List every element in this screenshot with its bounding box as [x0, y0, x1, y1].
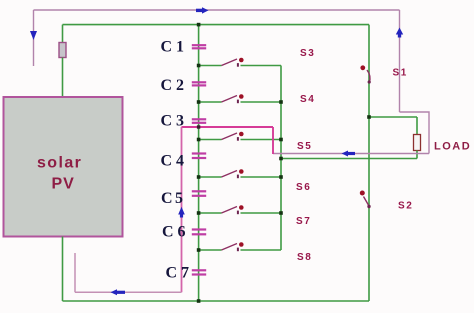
switch S6 blade — [222, 171, 238, 178]
svg-text:S3: S3 — [300, 48, 315, 59]
svg-text:LOAD: LOAD — [434, 141, 471, 153]
switch S8 blade — [222, 244, 238, 251]
node: chain S6 junction — [197, 175, 201, 179]
wire: S4 row left lead — [199, 101, 222, 103]
wire: magenta bottom horizontal — [75, 291, 182, 293]
switch S6 pole tick — [237, 175, 239, 179]
wire: right green vertical (S1/S2 branch) — [368, 25, 370, 301]
wire: capacitor chain vertical — [198, 25, 200, 301]
wire: green vertical from solar PV bottom to bottom bus — [62, 237, 64, 302]
node: chain magenta tap junction — [197, 125, 200, 128]
node: chain S4 junction — [197, 100, 201, 104]
switch S1 blade — [367, 70, 370, 83]
node: chain S5 junction — [197, 138, 201, 142]
wire: S5 row right lead — [241, 139, 282, 141]
arrow: current right on top purple wire — [196, 9, 202, 12]
wire: magenta vertical beside capacitor chain — [181, 127, 183, 292]
node: bus S6 junction — [279, 175, 283, 179]
wire: LOAD top green from right vertical to load — [369, 116, 417, 118]
node: chain S3 junction — [197, 64, 201, 68]
wire: S5 row left lead — [199, 139, 222, 141]
svg-text:C 1: C 1 — [161, 39, 185, 56]
arrow: current left on magenta bottom wire — [117, 291, 125, 294]
node: bus S4 junction — [279, 100, 283, 104]
wire: purple jog right at load — [400, 112, 430, 154]
wire: purple current path top horizontal — [34, 9, 400, 11]
wire: top green bus from PV resistor branch to right side — [63, 24, 370, 26]
wire: left green vertical from top bus down to resistor — [62, 25, 64, 43]
wire: purple current path left vertical (dead end) — [33, 10, 35, 66]
capacitor C2 — [192, 82, 206, 85]
switch S1 lower contact — [368, 80, 371, 83]
resistor R1 (series resistor above solar PV) — [59, 43, 66, 58]
wire: S8 row right lead — [241, 249, 282, 251]
node: right vertical LOAD tap junction — [367, 115, 371, 119]
node: chain bottom junction — [197, 299, 201, 303]
wire: S7 row left lead — [199, 212, 222, 214]
node: chain top junction — [197, 23, 201, 27]
capacitor C7 — [192, 270, 206, 274]
node: chain S7 junction — [197, 211, 201, 215]
wire: S6 row right lead — [241, 176, 282, 178]
arrow: current up on right purple wire — [398, 35, 401, 38]
arrow: current down on left purple wire — [30, 31, 37, 40]
svg-text:S6: S6 — [296, 182, 311, 193]
wire: purple current path right vertical (S1 branch) — [399, 10, 401, 112]
switch S5 contact dot — [239, 132, 244, 137]
node: bus output junction — [279, 157, 283, 161]
svg-text:C 7: C 7 — [166, 265, 190, 282]
switch S7 contact dot — [239, 205, 244, 210]
wire: purple S5 output row — [273, 153, 429, 155]
switch S2 contact dot — [360, 191, 365, 196]
solar PV source block — [4, 97, 123, 237]
node: chain S8 junction — [197, 248, 201, 252]
switch S8 pole tick — [237, 248, 239, 252]
switch S4 blade — [222, 96, 238, 103]
capacitor C1 — [192, 45, 206, 48]
capacitor C6 — [192, 230, 206, 235]
svg-text:S1: S1 — [393, 68, 408, 79]
svg-text:S2: S2 — [398, 201, 413, 212]
svg-text:S4: S4 — [300, 94, 315, 105]
svg-text:PV: PV — [52, 176, 75, 193]
wire: green vertical from resistor to solar PV top — [62, 58, 64, 98]
svg-text:solar: solar — [37, 155, 82, 172]
switch S6 contact dot — [239, 169, 244, 174]
switch S2 lower contact — [367, 205, 370, 208]
capacitor C4 — [192, 154, 206, 159]
wire: bottom green bus — [63, 300, 370, 302]
svg-text:C 3: C 3 — [161, 113, 185, 130]
switch S4 pole tick — [237, 100, 239, 104]
switch S7 blade — [222, 207, 238, 214]
node: bus S7 junction — [279, 211, 283, 215]
load resistor — [414, 135, 421, 151]
wire: green vertical into LOAD resistor top — [416, 117, 418, 135]
switch S7 pole tick — [237, 211, 239, 215]
svg-text:S8: S8 — [297, 252, 312, 263]
svg-text:C 2: C 2 — [161, 77, 185, 94]
switch S2 blade — [364, 197, 370, 207]
svg-text:C 6: C 6 — [162, 224, 186, 241]
svg-text:S5: S5 — [297, 141, 312, 152]
arrow: current left on S5 output row — [348, 152, 355, 155]
wire: right switch bus vertical — [280, 66, 282, 251]
wire: S7 row right lead — [241, 212, 282, 214]
svg-text:C5: C5 — [161, 190, 185, 207]
switch S8 contact dot — [239, 242, 244, 247]
svg-text:S7: S7 — [296, 216, 311, 227]
capacitor C5 — [192, 191, 206, 196]
switch S3 contact dot — [239, 58, 244, 63]
wire: S6 row left lead — [199, 176, 222, 178]
switch S3 blade — [222, 59, 238, 66]
wire: magenta C3 tap horizontal — [182, 126, 274, 128]
svg-text:C 4: C 4 — [161, 153, 185, 170]
node: bus S5 junction — [279, 138, 283, 142]
switch S5 blade — [222, 133, 238, 140]
wire: S3 row left lead — [199, 65, 222, 67]
wire: S3 row right lead — [241, 65, 282, 67]
switch S5 pole tick — [237, 137, 239, 141]
switch S4 contact dot — [239, 94, 244, 99]
wire: magenta bottom-left vertical (dead end) — [74, 253, 76, 292]
wire: S8 row left lead — [199, 249, 222, 251]
switch S3 pole tick — [237, 63, 239, 67]
capacitor C3 — [192, 119, 206, 123]
wire: magenta drop to S5 output row — [272, 127, 274, 154]
wire: S4 row right lead — [241, 101, 282, 103]
arrow: current up on magenta vertical — [180, 215, 183, 218]
wire: green vertical from LOAD resistor bottom — [416, 151, 418, 159]
switch S1 contact dot — [360, 65, 365, 70]
wire: S5 output green row from bus to LOAD — [281, 158, 417, 160]
